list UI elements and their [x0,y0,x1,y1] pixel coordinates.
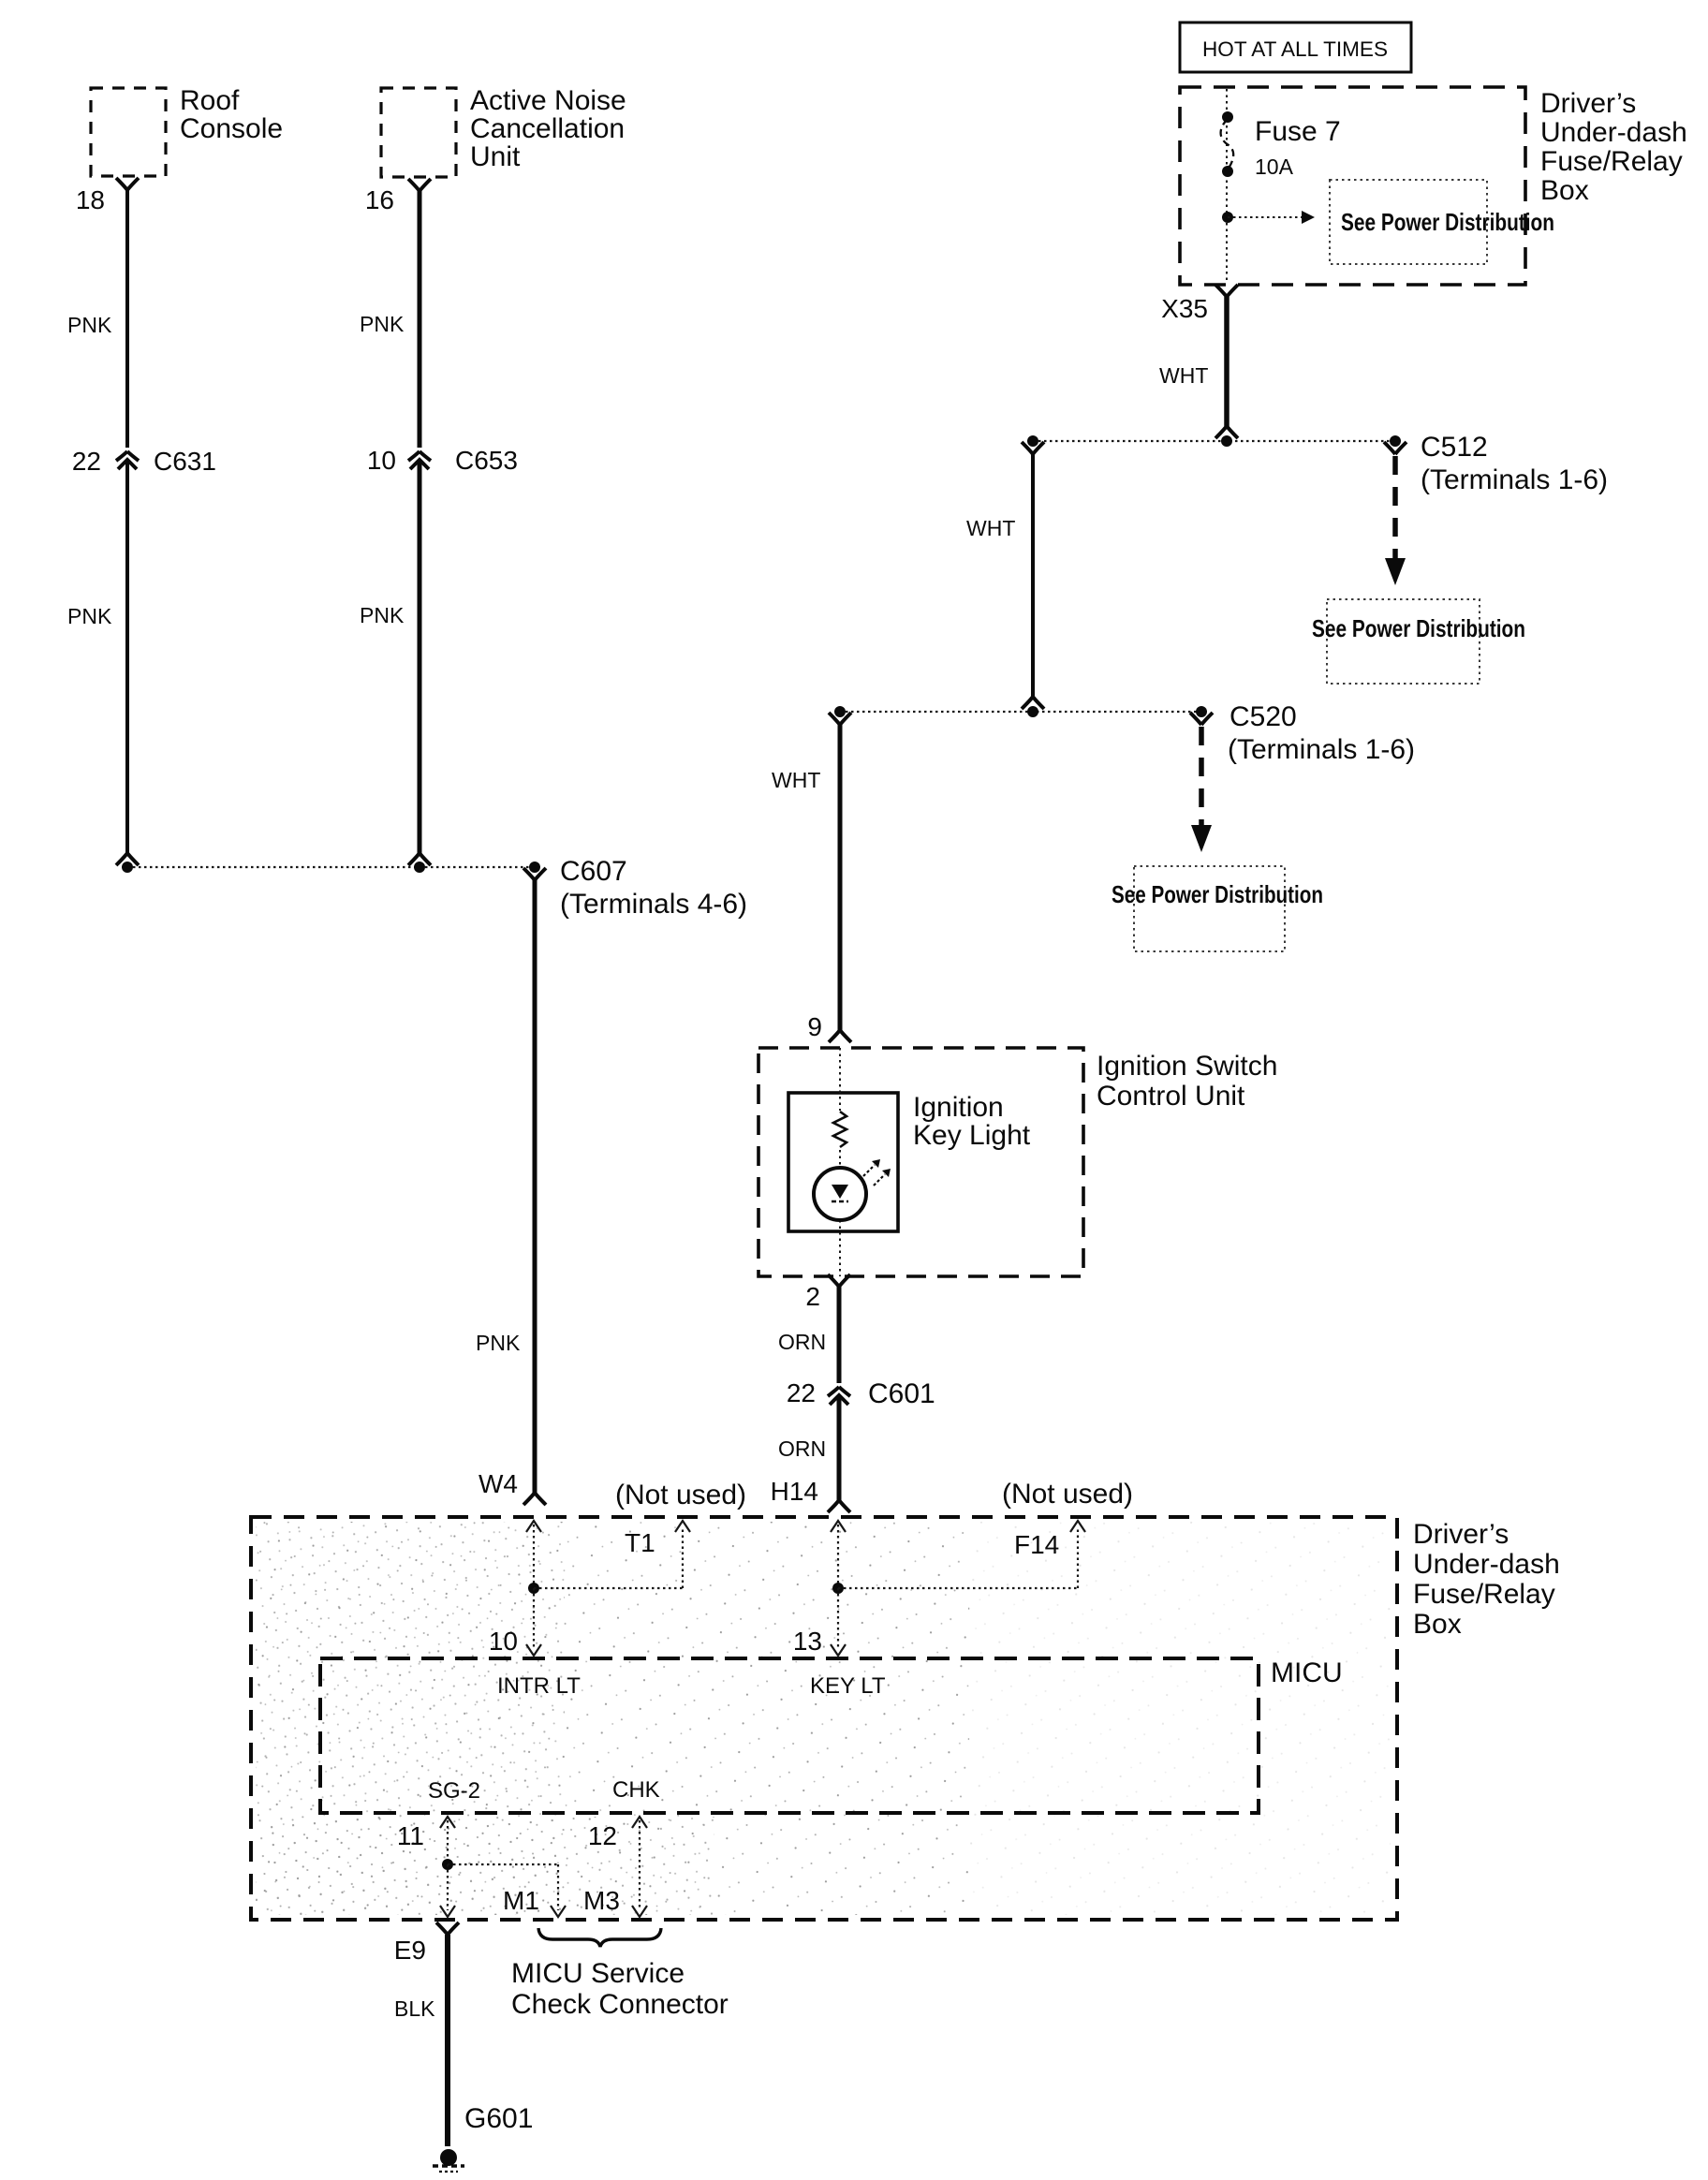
wire PNK anc to C653 [408,179,431,191]
svg-text:C520: C520 [1229,701,1297,732]
svg-text:16: 16 [365,185,394,214]
svg-text:Roof: Roof [180,85,240,116]
connector C512 [1384,442,1406,454]
svg-text:See Power Distribution: See Power Distribution [1341,208,1554,236]
svg-text:(Not used): (Not used) [615,1480,746,1510]
wire PNK C631 to junction [125,461,129,853]
svg-text:Unit: Unit [470,141,521,172]
svg-text:M1: M1 [503,1886,539,1915]
svg-text:Box: Box [1540,175,1589,206]
svg-text:E9: E9 [394,1936,426,1965]
ignition key light inner box [788,1093,898,1231]
HOT AT ALL TIMES box [1180,22,1411,72]
svg-text:Driver’s: Driver’s [1413,1519,1509,1550]
svg-text:18: 18 [76,185,105,214]
fuse 7 element [1226,89,1228,283]
svg-text:See Power Distribution: See Power Distribution [1312,614,1525,642]
MICU service check connector brace [538,1928,661,1947]
junction row 1 [1033,440,1395,442]
connector C607 [523,868,546,880]
svg-text:PNK: PNK [476,1331,521,1355]
svg-text:2: 2 [805,1282,820,1311]
MICU box [320,1658,1259,1813]
internal path CHK to M3 [632,1817,647,1828]
svg-text:Fuse 7: Fuse 7 [1255,116,1341,147]
svg-text:10: 10 [489,1627,518,1656]
drivers under-dash fuse/relay box (top) [1180,87,1525,285]
svg-text:T1: T1 [625,1528,655,1557]
see power distribution box C [1134,866,1285,951]
svg-text:(Terminals 1-6): (Terminals 1-6) [1228,734,1415,765]
svg-text:Cancellation: Cancellation [470,113,625,144]
internal dotted path [839,1048,841,1111]
internal path H14 to F14 and KEY LT [831,1521,846,1532]
wire WHT X35 [1215,285,1238,297]
dashed arrow C512 to power distribution [1392,456,1398,559]
svg-text:12: 12 [588,1821,617,1850]
svg-text:13: 13 [793,1627,822,1656]
internal path SG-2 to E9 and M1 [440,1817,455,1828]
wire ORN C601 to H14 [837,1396,842,1500]
active noise cancellation unit box [381,88,456,177]
wire ORN to C601 [828,1274,850,1287]
svg-text:Fuse/Relay: Fuse/Relay [1540,146,1683,177]
svg-text:Check Connector: Check Connector [511,1989,729,2020]
svg-text:F14: F14 [1014,1530,1059,1559]
see power distribution box B [1327,599,1480,684]
svg-text:C601: C601 [868,1378,935,1409]
svg-text:ORN: ORN [778,1436,826,1461]
svg-text:C653: C653 [455,446,518,475]
wire PNK C607 to W4 [533,880,537,1493]
svg-text:INTR LT: INTR LT [497,1673,581,1699]
svg-text:WHT: WHT [966,516,1015,540]
svg-text:CHK: CHK [612,1777,660,1803]
resistor [833,1112,847,1147]
wire WHT branch down [1022,442,1044,454]
wire PNK roof console to C631 [116,178,139,190]
wire PNK C653 to junction [418,461,422,853]
svg-text:(Terminals 4-6): (Terminals 4-6) [560,889,747,920]
connector C520 [1190,713,1213,725]
svg-text:(Terminals 1-6): (Terminals 1-6) [1421,464,1608,495]
svg-text:M3: M3 [583,1886,620,1915]
svg-text:WHT: WHT [772,768,820,792]
svg-text:PNK: PNK [360,603,405,627]
svg-text:MICU: MICU [1271,1657,1343,1688]
svg-text:H14: H14 [771,1477,818,1506]
svg-text:Key Light: Key Light [913,1120,1031,1151]
svg-text:Under-dash: Under-dash [1413,1549,1560,1580]
wire WHT to ignition switch [829,713,851,725]
svg-text:C607: C607 [560,856,627,887]
svg-text:G601: G601 [464,2103,533,2134]
svg-text:KEY LT: KEY LT [810,1673,886,1699]
svg-text:Under-dash: Under-dash [1540,117,1687,148]
svg-text:HOT AT ALL TIMES: HOT AT ALL TIMES [1202,37,1388,61]
svg-text:11: 11 [397,1821,424,1850]
svg-text:C631: C631 [154,447,216,476]
svg-text:ORN: ORN [778,1330,826,1354]
connector C631 [116,451,139,469]
svg-text:MICU Service: MICU Service [511,1958,685,1989]
internal path W4 to T1 and INTR LT [526,1521,541,1532]
wire BLK E9 to G601 [436,1922,459,1935]
svg-text:10A: 10A [1255,155,1294,179]
svg-text:See Power Distribution: See Power Distribution [1112,880,1323,908]
roof console box [91,88,166,176]
svg-text:Box: Box [1413,1609,1462,1640]
svg-text:PNK: PNK [67,604,112,628]
svg-text:PNK: PNK [360,312,405,336]
svg-text:C512: C512 [1421,432,1488,463]
ignition switch control unit box [758,1048,1083,1276]
lamp circle [814,1168,866,1220]
junction wire y=926 [127,866,535,868]
connector C601 [828,1387,850,1405]
svg-text:Active Noise: Active Noise [470,85,626,116]
svg-text:(Not used): (Not used) [1002,1479,1133,1510]
svg-text:Ignition Switch: Ignition Switch [1097,1051,1277,1082]
svg-text:Control Unit: Control Unit [1097,1081,1245,1112]
LED symbol [832,1185,848,1199]
svg-text:10: 10 [367,446,396,475]
svg-text:Ignition: Ignition [913,1092,1004,1123]
svg-text:Console: Console [180,113,283,144]
light emission arrows [863,1165,875,1176]
junction row 2 [840,711,1201,713]
svg-text:22: 22 [787,1378,816,1407]
svg-text:WHT: WHT [1159,363,1208,388]
svg-text:W4: W4 [479,1469,518,1498]
svg-text:22: 22 [72,447,101,476]
connector C653 [408,451,431,469]
dotted arrow to see power distribution [1228,216,1302,218]
svg-text:Fuse/Relay: Fuse/Relay [1413,1579,1555,1610]
svg-text:X35: X35 [1161,294,1208,323]
svg-text:PNK: PNK [67,313,112,337]
drivers under-dash fuse/relay box (bottom) [251,1517,1397,1920]
svg-text:9: 9 [807,1012,822,1041]
svg-text:BLK: BLK [394,1996,435,2021]
dashed arrow C520 to power distribution [1199,727,1204,826]
see power distribution box A [1330,180,1487,264]
svg-text:Driver’s: Driver’s [1540,88,1636,119]
svg-text:SG-2: SG-2 [428,1778,480,1804]
